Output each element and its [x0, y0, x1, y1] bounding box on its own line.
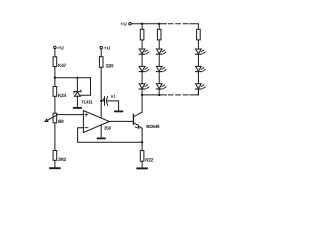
ground op-amp	[98, 137, 105, 139]
resistor ballast 3	[197, 29, 201, 40]
wire supply	[100, 68, 102, 118]
LED	[196, 66, 206, 71]
trimmer P1	[45, 113, 64, 125]
ground C1	[115, 110, 122, 112]
node supply junction	[100, 100, 102, 102]
TL431 D1	[74, 90, 93, 104]
capacitor C1 u1	[101, 93, 116, 105]
wire V- pin	[100, 125, 102, 138]
wire	[141, 89, 143, 95]
resistor 33R	[99, 57, 114, 70]
wire bottom rail	[142, 94, 166, 96]
transistor Q1 BD649	[133, 112, 160, 129]
wire top rail dashed	[168, 23, 188, 25]
wire	[141, 162, 143, 168]
LED branch 3	[196, 29, 206, 95]
wire	[158, 24, 160, 29]
wire REF loop	[80, 78, 90, 96]
LED branch 1	[139, 24, 149, 95]
wire	[76, 78, 78, 92]
wire	[197, 54, 199, 66]
node emitter junction	[141, 141, 143, 143]
svg-text:2R2: 2R2	[58, 157, 67, 163]
wire	[54, 49, 56, 57]
svg-text:K47: K47	[58, 63, 67, 69]
node rail branch2	[158, 23, 160, 25]
resistor ballast 1	[140, 29, 144, 40]
LED branch 2	[156, 24, 166, 95]
wire top rail right corner	[190, 24, 199, 29]
ground TL431	[74, 107, 81, 109]
terminal +U top right	[120, 22, 131, 28]
wire -in feedback	[78, 128, 143, 143]
wire	[158, 40, 160, 49]
resistor K24	[53, 87, 66, 99]
LED	[156, 66, 166, 71]
svg-text:+U: +U	[58, 45, 65, 51]
svg-text:8R: 8R	[58, 119, 64, 125]
svg-text:u1: u1	[111, 93, 117, 98]
node bottom rail branch2	[158, 94, 160, 96]
svg-text:33R: 33R	[106, 64, 115, 70]
svg-text:358: 358	[104, 125, 111, 130]
wire	[100, 49, 102, 57]
resistor R22	[140, 151, 153, 164]
wire	[141, 72, 143, 84]
wire	[197, 72, 199, 84]
wire emitter	[141, 128, 143, 150]
op-amp U1 358	[83, 111, 111, 133]
terminal +U mid	[100, 45, 111, 51]
wire	[54, 97, 56, 113]
node collector/rail	[141, 94, 143, 96]
resistor 2R2	[53, 151, 66, 164]
svg-text:K24: K24	[58, 93, 67, 99]
ground 2R2	[50, 167, 60, 169]
svg-text:TL431: TL431	[81, 99, 93, 104]
terminal +U left	[54, 45, 65, 51]
junction TL431 top	[76, 77, 78, 79]
LED	[156, 84, 166, 89]
wire wiper to +input	[58, 114, 84, 116]
wire	[197, 89, 199, 95]
wire	[141, 54, 143, 66]
wire	[158, 89, 160, 95]
resistor K47	[53, 57, 66, 69]
wire output to base	[109, 120, 133, 122]
svg-text:+U: +U	[104, 45, 111, 51]
wire top rail	[131, 23, 166, 25]
node A junction	[54, 77, 56, 79]
wire collector	[141, 95, 143, 112]
LED	[139, 49, 149, 54]
LED	[156, 49, 166, 54]
LED	[196, 84, 206, 89]
wire	[107, 101, 118, 111]
wire	[141, 24, 143, 29]
wire	[158, 54, 160, 66]
svg-text:R22: R22	[145, 158, 154, 164]
LED	[196, 49, 206, 54]
wire bottom rail dashed	[168, 94, 188, 96]
LED	[139, 66, 149, 71]
node rail branch1	[141, 23, 143, 25]
wire	[54, 67, 56, 86]
wire bottom rail right corner	[190, 89, 199, 95]
wire node A to TL431	[55, 77, 91, 79]
ground R22	[137, 167, 147, 169]
wire	[158, 72, 160, 84]
LED	[139, 84, 149, 89]
wire	[141, 40, 143, 49]
resistor ballast 2	[157, 29, 161, 40]
wire	[54, 161, 56, 168]
svg-text:BD649: BD649	[146, 124, 160, 129]
wire	[76, 96, 78, 107]
wire	[54, 123, 56, 150]
svg-text:+U: +U	[120, 22, 127, 28]
wire	[197, 40, 199, 49]
